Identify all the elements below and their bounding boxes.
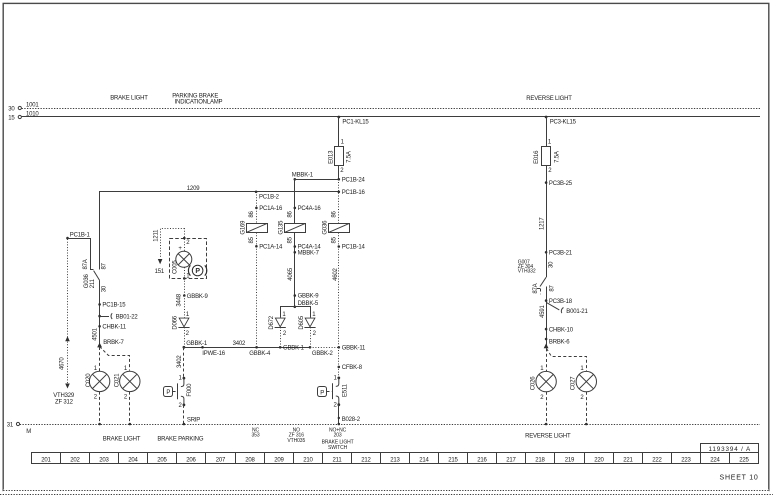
node GBBK-11 xyxy=(338,346,367,352)
svg-text:GBBK-9: GBBK-9 xyxy=(187,294,209,300)
wire dashed BRBK-7 to lamp C021 xyxy=(100,347,130,371)
svg-text:SRIP: SRIP xyxy=(187,418,200,424)
svg-text:BRBK-7: BRBK-7 xyxy=(103,340,124,346)
svg-text:PC1A-16: PC1A-16 xyxy=(259,206,283,212)
svg-text:B001-21: B001-21 xyxy=(566,309,588,315)
svg-text:PC1A-14: PC1A-14 xyxy=(259,245,283,251)
svg-text:C020: C020 xyxy=(86,373,92,387)
svg-text:202: 202 xyxy=(70,457,80,463)
svg-text:4670: 4670 xyxy=(60,357,66,370)
wire lamp C021 to bus 31 xyxy=(129,392,131,424)
svg-text:D066: D066 xyxy=(172,315,178,329)
svg-text:MBBK-7: MBBK-7 xyxy=(298,251,320,257)
svg-text:CHBK-11: CHBK-11 xyxy=(102,324,126,330)
svg-text:151: 151 xyxy=(155,269,165,275)
node GBBK-9 (lamp branch) xyxy=(183,294,208,300)
node PC3-KL15 on bus 15 xyxy=(545,116,577,126)
node PC3B-21 xyxy=(545,251,573,257)
svg-text:87: 87 xyxy=(550,284,556,291)
wire from contact 30 down xyxy=(99,280,101,346)
svg-text:PC3B-21: PC3B-21 xyxy=(549,251,573,257)
svg-text:7.5A: 7.5A xyxy=(347,151,353,163)
svg-text:1209: 1209 xyxy=(187,186,200,192)
svg-text:85: 85 xyxy=(288,236,294,243)
svg-text:221: 221 xyxy=(623,457,633,463)
wire 1211 with arrow to 151 xyxy=(153,229,184,275)
svg-text:205: 205 xyxy=(157,457,167,463)
wire 3402 down to switch F000 xyxy=(177,347,184,377)
pressure switch F000 (pins 1,2) xyxy=(164,376,194,409)
svg-text:C005: C005 xyxy=(173,260,179,274)
switch contact G007 ZF 304 VTH332 (pins 30 87A 87) xyxy=(518,252,556,294)
node PC1-KL15 on bus 15 xyxy=(337,116,369,126)
svg-text:P: P xyxy=(166,390,170,396)
node IPWE-16 xyxy=(201,346,226,357)
svg-text:F000: F000 xyxy=(187,383,193,397)
svg-text:87A: 87A xyxy=(533,283,539,293)
wire lamp C020 to bus 31 xyxy=(99,392,101,424)
svg-text:211: 211 xyxy=(90,278,96,288)
svg-text:P: P xyxy=(320,391,324,397)
svg-text:1217: 1217 xyxy=(539,217,545,230)
node PC1B-15 xyxy=(98,303,126,309)
svg-text:P: P xyxy=(195,268,200,275)
svg-text:203: 203 xyxy=(99,457,109,463)
wire CFBK-8 to switch E511 xyxy=(338,347,340,377)
wire relay G036 branch (dotted) xyxy=(338,179,340,223)
svg-text:87: 87 xyxy=(101,262,107,269)
wire T-split to diodes xyxy=(281,307,311,318)
svg-text:CFBK-8: CFBK-8 xyxy=(342,365,363,371)
svg-text:207: 207 xyxy=(216,457,226,463)
node B028-2 xyxy=(338,417,361,423)
wire 87 down xyxy=(546,287,548,349)
svg-text:1211: 1211 xyxy=(153,229,159,242)
bus 30 wire 1001 xyxy=(8,102,760,112)
svg-text:210: 210 xyxy=(303,457,313,463)
svg-text:3448: 3448 xyxy=(176,293,182,306)
svg-text:214: 214 xyxy=(419,457,429,463)
node PC1B-14 xyxy=(338,245,366,251)
svg-text:B028-2: B028-2 xyxy=(342,417,361,423)
node PC1A-14 xyxy=(255,245,283,251)
lamp C005 (parking brake indicator) xyxy=(173,237,192,280)
svg-text:BRAKE PARKING: BRAKE PARKING xyxy=(157,437,204,443)
svg-text:PC1B-24: PC1B-24 xyxy=(342,178,366,184)
bus 31 (ground) with terminal M xyxy=(7,422,760,435)
svg-text:G135: G135 xyxy=(279,220,285,235)
svg-text:219: 219 xyxy=(565,457,575,463)
diode D672 (pins 1,2) xyxy=(269,312,287,347)
svg-text:3402: 3402 xyxy=(177,355,183,368)
svg-text:3402: 3402 xyxy=(233,341,246,347)
svg-text:1001: 1001 xyxy=(26,102,39,108)
svg-text:220: 220 xyxy=(594,457,604,463)
svg-text:G036: G036 xyxy=(323,220,329,235)
wire dashed BRBK-7 to lamp C020 xyxy=(99,347,101,371)
svg-text:31: 31 xyxy=(7,422,14,428)
svg-text:CHBK-10: CHBK-10 xyxy=(549,327,574,333)
wire dashed GBBK-2 to GBBK-11 xyxy=(310,347,339,349)
node BRBK-6 (junction arrow) xyxy=(544,338,571,349)
wire 3448 xyxy=(176,293,184,318)
svg-text:BRAKE LIGHT: BRAKE LIGHT xyxy=(110,96,148,102)
svg-text:208: 208 xyxy=(245,457,255,463)
svg-text:4602: 4602 xyxy=(333,267,339,280)
svg-text:204: 204 xyxy=(128,457,138,463)
node PC1B-24 xyxy=(338,178,366,184)
svg-text:215: 215 xyxy=(448,457,458,463)
fuse E016 7.5A (pins 1,2) xyxy=(534,140,561,174)
wire 3402 horizontal xyxy=(184,341,310,347)
svg-text:225: 225 xyxy=(739,457,749,463)
svg-text:86: 86 xyxy=(288,210,294,217)
svg-text:30: 30 xyxy=(549,261,555,268)
node CHBK-10 xyxy=(545,327,574,333)
svg-text:209: 209 xyxy=(274,457,284,463)
node PC3B-25 xyxy=(545,181,573,187)
node CFBK-8 xyxy=(338,365,363,371)
svg-text:PC1B-2: PC1B-2 xyxy=(259,195,280,201)
svg-text:SHEET 10: SHEET 10 xyxy=(720,474,759,481)
relay coil G036 (pins 86,85) xyxy=(323,210,350,243)
wire relay G169 branch (dotted) xyxy=(256,192,258,224)
svg-text:218: 218 xyxy=(535,457,545,463)
diode D066 xyxy=(172,312,189,347)
svg-text:212: 212 xyxy=(361,457,371,463)
svg-text:REVERSE LIGHT: REVERSE LIGHT xyxy=(525,434,571,440)
node GBBK-4 (relay G169 branch) xyxy=(249,346,271,357)
svg-text:1010: 1010 xyxy=(26,111,39,117)
svg-text:30: 30 xyxy=(101,285,107,292)
switch contact G036/211 (changeover, pins 87 87A 30) xyxy=(83,259,107,292)
parking brake symbol (P) xyxy=(188,265,206,276)
svg-text:223: 223 xyxy=(681,457,691,463)
wire SRIP to bus 31 xyxy=(183,405,201,425)
svg-text:INDICATIONLAMP: INDICATIONLAMP xyxy=(175,99,223,105)
wire MBBK-1 xyxy=(292,173,339,181)
off-sheet reference wire 4670 to VTH329 ZF 312 xyxy=(53,239,75,406)
svg-text:MBBK-1: MBBK-1 xyxy=(292,173,314,179)
lamp C021 xyxy=(114,366,140,401)
wire bus to fuse E016 xyxy=(546,117,548,146)
svg-text:E511: E511 xyxy=(342,383,348,397)
svg-text:213: 213 xyxy=(390,457,400,463)
wire fuse to PC1B-24 xyxy=(338,165,340,179)
svg-text:PC3B-25: PC3B-25 xyxy=(549,181,573,187)
wire relay G135 branch xyxy=(294,179,296,223)
svg-text:201: 201 xyxy=(41,457,51,463)
svg-text:203: 203 xyxy=(334,433,342,439)
bus 15 wire 1010 xyxy=(8,111,760,121)
wire 1211 down into lamp enclosure xyxy=(184,228,186,251)
svg-text:GBBK-1: GBBK-1 xyxy=(283,346,305,352)
svg-text:GBBK-1: GBBK-1 xyxy=(186,341,208,347)
node PC1B-2 xyxy=(255,191,280,201)
diode D605 (pins 1,2) xyxy=(299,312,317,347)
svg-text:87A: 87A xyxy=(83,259,89,269)
connector B001-21 xyxy=(546,302,588,315)
svg-text:VTH332: VTH332 xyxy=(518,268,536,274)
svg-text:BRBK-6: BRBK-6 xyxy=(549,340,570,346)
node PC4A-16 xyxy=(294,206,322,212)
svg-text:VTH329: VTH329 xyxy=(53,393,75,399)
node GBBK-9 (relay branch) xyxy=(294,294,320,300)
node DBBK-5 xyxy=(294,301,319,308)
svg-text:PC1B-16: PC1B-16 xyxy=(342,190,366,196)
svg-text:E016: E016 xyxy=(534,150,540,164)
node BRBK-7 (junction arrow) xyxy=(97,340,124,347)
relay coil G135 (pins 86,85) xyxy=(279,210,306,243)
relay coil G169 (pins 86,85) xyxy=(240,210,267,243)
reference grid row 201-225 xyxy=(32,453,759,464)
svg-text:224: 224 xyxy=(710,457,720,463)
svg-text:222: 222 xyxy=(652,457,662,463)
svg-text:M: M xyxy=(26,429,31,435)
svg-text:C027: C027 xyxy=(571,376,577,390)
wire 1209 xyxy=(100,186,339,269)
connector BB01-22 xyxy=(98,313,138,320)
wire 1217 xyxy=(539,165,546,252)
wire PC1B-1 to switch terminal 87A xyxy=(68,239,94,270)
svg-text:85: 85 xyxy=(332,236,338,243)
node PC1A-16 xyxy=(255,206,283,212)
svg-text:GBBK-11: GBBK-11 xyxy=(342,346,366,352)
wire lamp C005 to GBBK-9 xyxy=(184,267,186,295)
node GBBK-1 (F000 branch) xyxy=(183,341,208,348)
svg-text:211: 211 xyxy=(333,457,343,463)
svg-text:86: 86 xyxy=(332,210,338,217)
svg-text:E013: E013 xyxy=(329,150,335,164)
node PC3B-18 xyxy=(545,299,573,305)
fuse E013 7.5A (pins 1,2) xyxy=(329,140,353,174)
svg-text:D672: D672 xyxy=(269,315,275,329)
svg-text:GBBK-4: GBBK-4 xyxy=(249,351,271,357)
svg-text:4591: 4591 xyxy=(540,304,546,317)
svg-text:206: 206 xyxy=(186,457,196,463)
svg-text:216: 216 xyxy=(477,457,487,463)
wire bus to fuse E013 xyxy=(338,117,340,146)
svg-text:4065: 4065 xyxy=(288,267,294,280)
svg-text:30: 30 xyxy=(8,106,15,112)
lamp C005 dashed enclosure xyxy=(170,239,207,279)
svg-text:C026: C026 xyxy=(530,376,536,390)
node CHBK-11 xyxy=(98,324,126,330)
svg-text:BRAKE LIGHT: BRAKE LIGHT xyxy=(103,437,141,443)
svg-text:SWITCH: SWITCH xyxy=(328,445,348,451)
node PC1B-16 xyxy=(338,190,366,196)
svg-text:PC3B-18: PC3B-18 xyxy=(549,299,573,305)
svg-text:217: 217 xyxy=(506,457,516,463)
svg-text:ZF 312: ZF 312 xyxy=(55,400,74,406)
wire dashed BRBK-6 to lamp C026 xyxy=(546,348,548,371)
svg-text:GBBK-9: GBBK-9 xyxy=(298,294,320,300)
node GBBK-1 (diode D672 branch) xyxy=(279,346,305,352)
svg-text:86: 86 xyxy=(249,210,255,217)
svg-text:353: 353 xyxy=(251,433,259,439)
svg-text:GBBK-2: GBBK-2 xyxy=(312,351,334,357)
svg-text:15: 15 xyxy=(8,115,15,121)
lamp C027 xyxy=(571,366,597,401)
svg-text:PC1B-14: PC1B-14 xyxy=(342,245,366,251)
svg-text:4501: 4501 xyxy=(93,327,99,340)
svg-text:7.5A: 7.5A xyxy=(554,151,560,163)
svg-text:PC3-KL15: PC3-KL15 xyxy=(550,120,577,126)
svg-text:PC4A-16: PC4A-16 xyxy=(298,206,322,212)
pressure switch E511 (pins 1,2) xyxy=(318,375,349,408)
svg-text:85: 85 xyxy=(249,236,255,243)
node GBBK-2 (diode D605 branch) xyxy=(309,346,334,357)
lamp C026 xyxy=(530,366,556,401)
lamp C020 xyxy=(86,366,110,401)
node MBBK-7 xyxy=(294,251,320,257)
title block drawing number 1193394 / A xyxy=(701,444,759,453)
svg-text:C021: C021 xyxy=(114,373,120,387)
wire lamp C027 to bus 31 xyxy=(586,392,588,424)
svg-text:G169: G169 xyxy=(240,220,246,235)
wire switch E511 to bus 31 xyxy=(338,405,340,424)
svg-text:PC1B-15: PC1B-15 xyxy=(102,303,126,309)
svg-text:PC1-KL15: PC1-KL15 xyxy=(342,120,369,126)
svg-text:PC1B-1: PC1B-1 xyxy=(70,232,91,238)
node PC1B-1 xyxy=(66,232,90,239)
svg-text:IPWE-16: IPWE-16 xyxy=(202,351,225,357)
svg-text:BB01-22: BB01-22 xyxy=(116,314,139,320)
wire dashed BRBK-6 to lamp C027 xyxy=(547,349,587,372)
svg-text:1193394 / A: 1193394 / A xyxy=(709,446,752,453)
wire lamp C026 to bus 31 xyxy=(546,392,548,424)
svg-text:REVERSE LIGHT: REVERSE LIGHT xyxy=(526,96,572,102)
svg-text:VTH035: VTH035 xyxy=(287,438,305,444)
svg-text:D605: D605 xyxy=(299,315,305,329)
node PC4A-14 xyxy=(294,245,322,251)
